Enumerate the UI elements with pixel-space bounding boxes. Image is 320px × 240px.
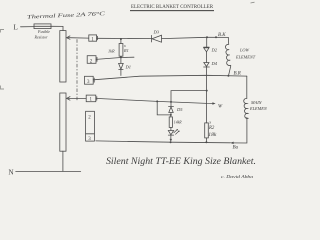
mechanical linkage dash-dot xyxy=(76,40,78,101)
switch contact box 1 (lower) xyxy=(86,95,96,102)
svg-text:1kR: 1kR xyxy=(108,49,115,54)
svg-text:R2: R2 xyxy=(208,126,215,131)
switch contact box 3 (upper) xyxy=(85,76,94,84)
diode D1 xyxy=(120,57,122,63)
wire bus3 BR xyxy=(93,75,247,80)
svg-text:D3: D3 xyxy=(153,30,160,35)
svg-text:L: L xyxy=(14,24,18,32)
svg-text:LOW: LOW xyxy=(239,48,249,53)
svg-text:14kR: 14kR xyxy=(174,121,182,125)
node R2 bottom dot xyxy=(205,141,207,143)
svg-text:N: N xyxy=(9,169,14,177)
inductor main element coil xyxy=(244,98,249,118)
node D5-R3 junction dot xyxy=(170,114,172,116)
node BK junction dots xyxy=(206,36,208,38)
svg-text:D1: D1 xyxy=(125,65,132,70)
node coil-BR dot xyxy=(227,75,229,77)
switch contact box 1 (upper) xyxy=(89,35,97,41)
svg-text:D4: D4 xyxy=(211,61,218,66)
paper background xyxy=(0,0,267,189)
wire S1a wiper arrow xyxy=(68,37,89,39)
switch S1a slider bar (upper) xyxy=(60,31,66,82)
node L terminal wire xyxy=(21,26,35,28)
resistor R3 xyxy=(169,117,172,128)
switch S1b slider bar (lower) xyxy=(60,93,66,151)
wire fuse to switch slider xyxy=(51,26,63,30)
wire slider to N xyxy=(62,151,64,171)
wire branch H to V2 xyxy=(171,91,207,102)
scan mark left edge lower xyxy=(1,86,5,90)
wire bus2 xyxy=(96,57,134,59)
resistor R2 xyxy=(205,123,209,138)
svg-text:Bu: Bu xyxy=(233,146,239,151)
diode D5 xyxy=(169,106,174,108)
svg-text:ELEMENT: ELEMENT xyxy=(249,106,267,111)
node bus4 dots xyxy=(170,141,172,143)
svg-text:Silent Night TT-EE King Size: Silent Night TT-EE King Size Blanket. xyxy=(106,156,256,167)
stray pen mark top right xyxy=(251,1,255,4)
svg-text:MAIN: MAIN xyxy=(250,100,263,105)
wire hook bypass xyxy=(157,101,171,115)
node W bus dots xyxy=(156,100,158,102)
wire V1 vertical diode chain xyxy=(206,37,208,47)
resistor R1 xyxy=(119,44,123,57)
wire BR corner down to main element xyxy=(246,76,248,98)
wire R1 top xyxy=(120,39,122,44)
wire V2 upper xyxy=(170,102,172,107)
svg-text:R1: R1 xyxy=(123,48,129,53)
node W arrowhead xyxy=(212,102,215,104)
wire bus1 (top, to BK) xyxy=(97,37,152,39)
svg-text:18k: 18k xyxy=(208,132,217,138)
svg-text:B.K: B.K xyxy=(218,33,226,38)
diode D3 xyxy=(151,35,153,42)
node Bu arrowhead xyxy=(230,142,233,145)
svg-text:x: x xyxy=(208,120,211,125)
switch contact box 2 (upper) xyxy=(87,56,96,64)
node V1 branch dot xyxy=(206,90,208,92)
svg-text:D2: D2 xyxy=(211,48,218,53)
inductor low element coil xyxy=(225,37,230,75)
scan mark left edge upper xyxy=(1,30,5,33)
wire main element to Bu xyxy=(232,117,247,143)
node V2 bottom arrowhead xyxy=(170,139,172,142)
wire bus W xyxy=(96,98,214,103)
diode D2 xyxy=(204,46,210,48)
LED indicator lamp xyxy=(170,127,172,130)
svg-text:ELECTRIC BLANKET CONTROLLER: ELECTRIC BLANKET CONTROLLER xyxy=(131,4,213,10)
svg-text:c. David Abba: c. David Abba xyxy=(221,174,253,179)
switch lower contact block 2/3 xyxy=(86,111,95,141)
fuse F1 thermal fuse body xyxy=(34,24,51,29)
svg-text:Resistor: Resistor xyxy=(34,34,49,39)
wire S1b wiper arrow xyxy=(68,97,86,99)
wire bus4 bottom (Bu) xyxy=(96,141,231,143)
svg-text:ELEMENT: ELEMENT xyxy=(235,55,256,60)
wire bus N xyxy=(16,170,81,172)
svg-text:B.R: B.R xyxy=(234,72,241,77)
svg-text:D5: D5 xyxy=(176,107,183,112)
diode D4 xyxy=(204,63,209,67)
